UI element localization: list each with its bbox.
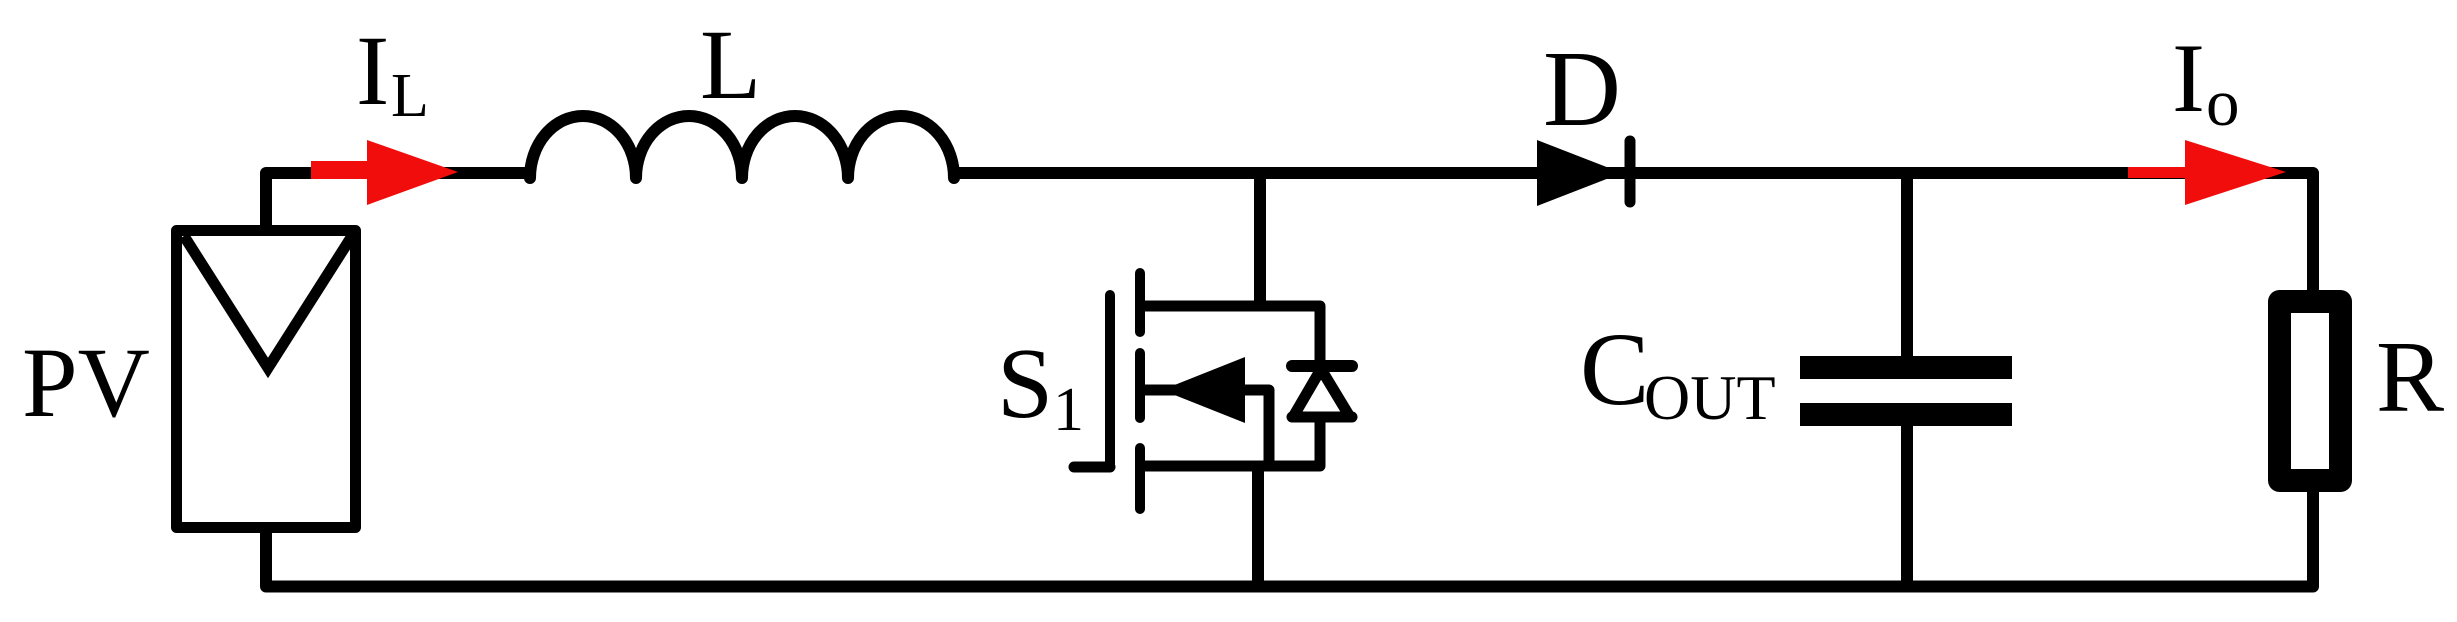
svg-text:OUT: OUT — [1644, 362, 1776, 433]
svg-text:L: L — [391, 62, 429, 130]
svg-text:D: D — [1543, 30, 1621, 149]
svg-text:S: S — [997, 327, 1053, 439]
svg-text:I: I — [356, 15, 389, 126]
svg-text:I: I — [2172, 24, 2205, 133]
svg-text:o: o — [2206, 66, 2240, 140]
svg-text:1: 1 — [1053, 376, 1084, 444]
svg-text:R: R — [2376, 321, 2444, 434]
svg-text:L: L — [700, 9, 761, 120]
svg-text:PV: PV — [22, 327, 150, 438]
svg-text:C: C — [1580, 312, 1649, 427]
